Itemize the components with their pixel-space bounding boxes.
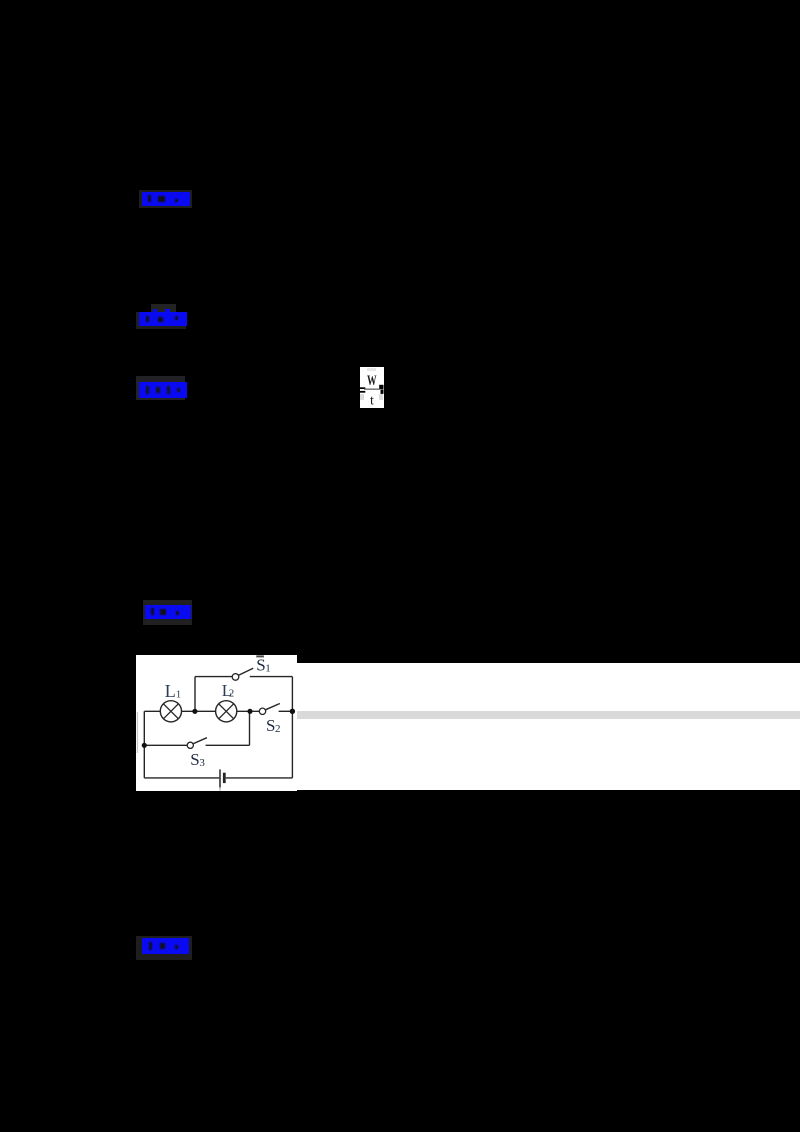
node junction L2-S3riser xyxy=(247,709,252,714)
wire S3 branch left xyxy=(144,744,187,746)
formula W/t fraction drawing xyxy=(358,366,386,409)
switch S3 blade xyxy=(193,738,207,744)
svg-text:S: S xyxy=(190,750,199,769)
battery short plate xyxy=(223,773,226,783)
wire S3 branch riser to main xyxy=(249,711,251,745)
formula gray column bottom-left xyxy=(360,394,364,400)
battery gray stub xyxy=(219,787,220,790)
node junction L1-branch xyxy=(192,709,197,714)
lamp L1 xyxy=(160,701,181,722)
circuit diagram image xyxy=(136,655,297,791)
node junction right xyxy=(290,709,295,714)
wire bottom right xyxy=(226,777,293,779)
wire top branch left xyxy=(195,676,232,678)
switch S1 contact circle xyxy=(232,674,239,681)
switch S2 contact circle xyxy=(259,708,265,714)
svg-text:1: 1 xyxy=(265,662,271,674)
gray artifact vertical line left xyxy=(137,712,138,753)
node junction left S3 xyxy=(142,743,147,748)
node label-5 highlight background xyxy=(136,936,192,960)
svg-text:2: 2 xyxy=(275,723,281,735)
formula right text fragment xyxy=(379,385,383,389)
circuit white background xyxy=(136,655,297,791)
gray highlight strip over white strip xyxy=(296,711,800,719)
lamp L2 xyxy=(216,701,237,722)
formula image white box (P = W/t) xyxy=(360,367,384,408)
wire main horizontal left xyxy=(144,710,160,712)
svg-text:W: W xyxy=(367,372,377,389)
S1 overbar artifact xyxy=(256,655,264,657)
wire right vertical xyxy=(291,677,293,778)
node label-2 highlight background upper xyxy=(151,304,176,313)
battery long plate xyxy=(219,769,221,787)
wire bottom left xyxy=(144,777,219,779)
node label-1 blue text blob xyxy=(142,192,190,206)
formula fraction bar xyxy=(364,389,380,390)
node label-2 highlight background xyxy=(136,312,186,329)
svg-text:2: 2 xyxy=(229,688,235,700)
switch S3 contact circle xyxy=(187,742,193,748)
formula gray column bottom-right xyxy=(379,394,383,400)
node label-3 blue text blob xyxy=(139,382,187,398)
white strip right of circuit xyxy=(297,663,800,790)
wire branch riser xyxy=(194,677,196,712)
wire S3 to riser xyxy=(206,744,250,746)
formula equals sign xyxy=(360,387,365,389)
wire top branch right xyxy=(250,676,293,678)
node label-3 highlight background xyxy=(136,376,185,400)
wire L2 to S2 xyxy=(237,710,259,712)
wire S2 to right node xyxy=(279,710,293,712)
svg-text:3: 3 xyxy=(199,757,205,769)
node label-4 highlight background xyxy=(143,600,192,625)
node label-5 blue text blob xyxy=(142,938,189,954)
svg-text:t: t xyxy=(370,394,374,409)
formula gray highlight strip top xyxy=(367,368,376,371)
switch S2 blade xyxy=(266,704,280,710)
node label-4 blue text blob xyxy=(145,605,191,619)
wire between lamps xyxy=(182,710,216,712)
node label-2 blue text blob xyxy=(139,309,187,326)
node label-1 highlight background xyxy=(139,190,192,208)
wire left vertical xyxy=(143,711,145,778)
svg-text:1: 1 xyxy=(176,688,182,700)
svg-text:L: L xyxy=(165,681,176,701)
switch S1 blade xyxy=(239,668,253,675)
